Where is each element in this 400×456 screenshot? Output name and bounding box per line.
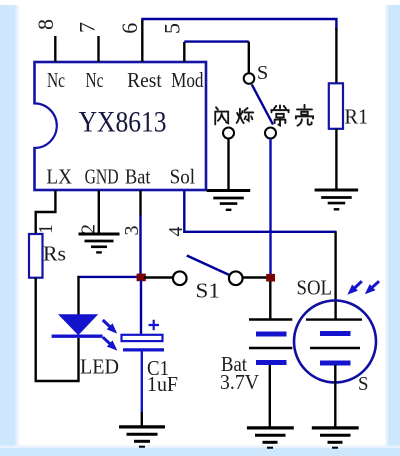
wire pin 6 vertical <box>141 20 143 62</box>
op-amp U1 YX8613 IC body <box>32 62 206 190</box>
svg-text:3.7V: 3.7V <box>220 370 259 394</box>
wire pin 7 stub <box>97 36 99 62</box>
text label chang-liang (steady) 常 <box>271 105 288 125</box>
svg-text:Sol: Sol <box>170 164 196 188</box>
wire junction A down to C1 <box>140 280 142 335</box>
contact circle shan-shuo (flash) <box>223 128 234 139</box>
contact circle chang-liang (steady) <box>265 128 276 139</box>
wire pin 3 Bat down to junction <box>139 190 141 216</box>
svg-text:6: 6 <box>117 23 142 34</box>
ground at pin 2 <box>79 234 120 252</box>
wire junction A to S1 left contact <box>144 276 173 278</box>
svg-text:5: 5 <box>160 23 185 34</box>
wire pin 6 to R1 top rail <box>141 19 336 30</box>
wire flash contact to ground <box>227 139 229 191</box>
svg-text:1uF: 1uF <box>147 372 178 396</box>
resistor Rs <box>29 234 43 278</box>
wire S1 right contact to junction B <box>243 276 267 278</box>
svg-text:8: 8 <box>33 19 58 30</box>
wire switch S drop <box>248 42 250 73</box>
wire battery to ground <box>269 365 271 427</box>
text label shan-shuo (flash) 闪 <box>215 107 228 124</box>
wire pin 1 LX to Rs <box>36 190 56 235</box>
ground under C1 <box>119 427 165 447</box>
svg-text:Mod: Mod <box>171 68 204 92</box>
ground under R1 <box>315 190 359 209</box>
SOL plate 3 (long) <box>310 347 360 349</box>
capacitor C1 bottom plate <box>123 348 164 351</box>
svg-text:GND: GND <box>85 164 119 188</box>
SOL plate 1 (long) <box>306 318 362 320</box>
switch S blade <box>252 85 273 125</box>
svg-text:Nc: Nc <box>47 68 65 92</box>
switch S1 blade <box>187 256 229 275</box>
LED diode triangle <box>58 314 98 335</box>
svg-text:Nc: Nc <box>86 68 104 92</box>
wire R1 bottom <box>335 129 337 190</box>
resistor R1 <box>329 83 343 129</box>
capacitor C1 plus sign <box>149 320 160 330</box>
switch S1 right contact <box>229 271 243 285</box>
SOL plate 2 (thick) <box>320 331 351 336</box>
svg-text:Rs: Rs <box>43 242 66 266</box>
svg-text:R1: R1 <box>344 105 368 129</box>
switch S1 left contact <box>173 271 187 285</box>
SOL plate 4 (thick) <box>320 361 351 366</box>
wire Rs bottom loop to LED cathode <box>36 278 79 381</box>
wire R1 top vertical <box>335 28 337 84</box>
svg-text:YX8613: YX8613 <box>79 105 167 138</box>
wire pin 4 Sol to SOL panel <box>184 190 336 232</box>
wire pin 8 stub <box>54 36 56 62</box>
wire LED anode row <box>77 276 137 278</box>
svg-text:S1: S1 <box>196 279 221 303</box>
ground under battery <box>247 428 294 448</box>
wire steady contact down to junction <box>269 139 271 275</box>
svg-text:1: 1 <box>35 224 57 234</box>
wire pin 5 vertical <box>183 42 185 62</box>
LED cathode bar <box>52 335 103 338</box>
svg-text:7: 7 <box>74 22 99 33</box>
ground under flash contact <box>207 191 251 210</box>
svg-text:LX: LX <box>46 164 72 188</box>
svg-text:LED: LED <box>80 355 119 379</box>
svg-text:S: S <box>358 373 369 395</box>
LED light arrow 1 <box>103 320 117 334</box>
battery Bat plate 4 (thick) <box>256 360 287 365</box>
battery Bat plate 2 (thick) <box>256 332 287 337</box>
text label chang-liang (steady) 亮 <box>296 105 313 126</box>
ground under SOL <box>312 428 359 448</box>
svg-text:SOL: SOL <box>297 275 333 299</box>
text label shan-shuo (flash) 烁 <box>237 108 254 123</box>
solar panel SOL circle <box>294 301 376 383</box>
svg-text:Rest: Rest <box>127 68 162 92</box>
junction node A (LED / Bat pin / C1 / S1) <box>137 274 146 282</box>
wire SOL bottom to ground <box>334 365 336 427</box>
SOL light arrow 2 <box>365 281 379 294</box>
wire pin 2 GND down <box>98 190 100 233</box>
switch S contact circle <box>244 73 255 84</box>
svg-text:S: S <box>257 62 268 84</box>
svg-text:Bat: Bat <box>125 164 151 188</box>
wire C1 to ground <box>141 351 143 413</box>
LED light arrow 2 <box>103 337 118 350</box>
wire junction B down to battery <box>269 281 271 320</box>
junction node B (S1 / steady contact / battery) <box>266 274 275 282</box>
SOL light arrow 1 <box>347 281 361 295</box>
wire pin 5 to switch S <box>184 40 249 42</box>
capacitor C1 top plate <box>122 335 163 341</box>
battery Bat plate 3 (long) <box>249 347 292 349</box>
battery Bat plate 1 (long) <box>249 318 292 320</box>
